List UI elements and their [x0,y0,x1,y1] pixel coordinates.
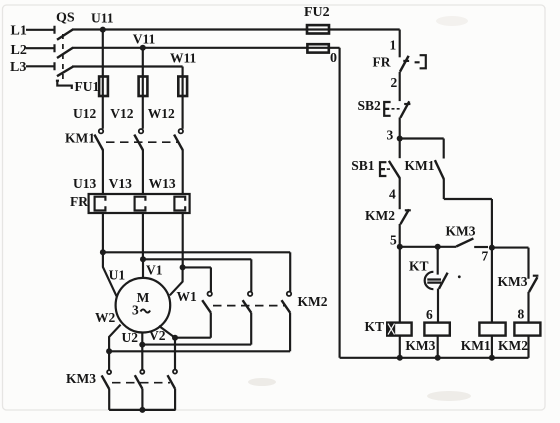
svg-text:KT: KT [409,259,429,274]
svg-text:V2: V2 [149,328,166,343]
svg-text:U2: U2 [122,330,139,345]
svg-text:QS: QS [56,10,75,25]
svg-text:KM2: KM2 [498,338,528,353]
svg-text:U1: U1 [109,268,126,283]
svg-text:5: 5 [390,233,397,248]
svg-text:KM3: KM3 [66,371,96,386]
svg-text:V1: V1 [146,263,163,278]
svg-text:U13: U13 [73,176,96,191]
svg-text:4: 4 [389,187,396,202]
svg-text:0: 0 [330,51,337,66]
svg-text:FU1: FU1 [75,79,100,94]
svg-text:L2: L2 [11,43,27,58]
svg-text:KM3: KM3 [405,338,435,353]
svg-text:L3: L3 [10,60,26,75]
svg-text:W13: W13 [149,176,176,191]
svg-text:W2: W2 [95,310,116,325]
svg-text:KM1: KM1 [461,338,491,353]
svg-text:6: 6 [426,307,433,322]
svg-text:FR: FR [373,55,391,70]
svg-text:7: 7 [482,249,489,264]
svg-text:KM1: KM1 [65,131,95,146]
svg-text:V12: V12 [110,106,133,121]
svg-text:1: 1 [390,38,397,53]
svg-text:FR: FR [70,194,88,209]
svg-text:W11: W11 [170,51,197,66]
svg-text:2: 2 [391,75,398,90]
svg-text:SB1: SB1 [351,158,375,173]
svg-text:3: 3 [132,303,139,318]
svg-text:U11: U11 [91,10,114,25]
svg-text:KM3: KM3 [446,224,476,239]
svg-text:KM2: KM2 [298,294,328,309]
svg-text:8: 8 [518,307,525,322]
svg-text:FU2: FU2 [304,5,330,20]
svg-text:KM3: KM3 [498,274,528,289]
svg-text:KM1: KM1 [405,158,435,173]
svg-text:KM2: KM2 [365,208,395,223]
svg-text:KT: KT [365,319,385,334]
svg-text:L1: L1 [11,23,27,38]
svg-text:SB2: SB2 [358,98,382,113]
svg-text:W12: W12 [148,106,175,121]
svg-text:3: 3 [387,128,394,143]
svg-text:V11: V11 [133,32,156,47]
svg-text:W1: W1 [177,289,198,304]
svg-text:U12: U12 [73,106,96,121]
svg-text:V13: V13 [109,176,132,191]
